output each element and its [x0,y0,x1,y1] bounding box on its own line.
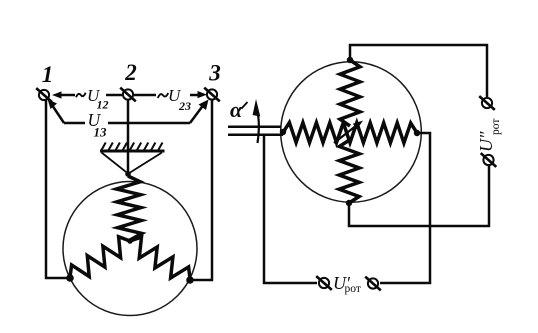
svg-text:3: 3 [208,61,221,86]
svg-text:рот: рот [490,119,502,135]
svg-text:23: 23 [178,99,191,113]
svg-text:рот: рот [345,283,361,295]
svg-text:1: 1 [42,62,54,87]
svg-text:2: 2 [124,60,137,85]
svg-text:13: 13 [94,125,108,140]
svg-text:α: α [230,97,243,122]
